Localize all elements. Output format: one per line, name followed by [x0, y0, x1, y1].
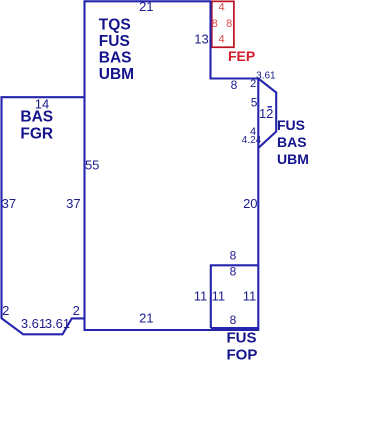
svg-text:13: 13	[194, 32, 208, 47]
svg-text:BAS: BAS	[99, 50, 132, 67]
svg-text:FGR: FGR	[20, 125, 53, 142]
svg-text:8: 8	[212, 18, 218, 30]
svg-text:37: 37	[66, 196, 80, 211]
svg-text:FOP: FOP	[227, 347, 258, 364]
svg-text:20: 20	[243, 196, 257, 211]
svg-text:11: 11	[194, 288, 208, 303]
svg-text:37: 37	[2, 196, 16, 211]
svg-text:BAS: BAS	[20, 109, 53, 126]
svg-text:TQS: TQS	[99, 17, 131, 34]
svg-text:UBM: UBM	[99, 66, 134, 83]
svg-text:5: 5	[251, 96, 258, 110]
svg-text:55: 55	[85, 158, 99, 173]
svg-text:8: 8	[231, 78, 238, 92]
svg-text:12: 12	[259, 106, 273, 121]
svg-text:8: 8	[230, 313, 237, 327]
svg-text:8: 8	[226, 18, 232, 30]
svg-text:FEP: FEP	[228, 48, 255, 64]
svg-text:4: 4	[219, 33, 225, 45]
svg-text:BAS: BAS	[277, 134, 307, 150]
svg-text:3.61: 3.61	[45, 316, 70, 331]
svg-text:3.61: 3.61	[21, 316, 46, 331]
svg-text:4: 4	[219, 1, 225, 13]
svg-text:2: 2	[73, 303, 80, 318]
svg-text:4.24: 4.24	[242, 135, 262, 146]
svg-text:2: 2	[2, 303, 9, 318]
svg-text:8: 8	[230, 264, 237, 278]
svg-text:FUS: FUS	[227, 330, 257, 347]
svg-text:FUS: FUS	[99, 33, 130, 50]
svg-text:FUS: FUS	[277, 117, 305, 133]
svg-text:11: 11	[243, 288, 257, 303]
svg-text:21: 21	[139, 310, 153, 325]
svg-text:21: 21	[139, 0, 153, 14]
svg-text:3.61: 3.61	[256, 71, 276, 82]
svg-text:UBM: UBM	[277, 151, 309, 167]
svg-text:8: 8	[230, 249, 237, 263]
svg-text:11: 11	[212, 288, 226, 303]
